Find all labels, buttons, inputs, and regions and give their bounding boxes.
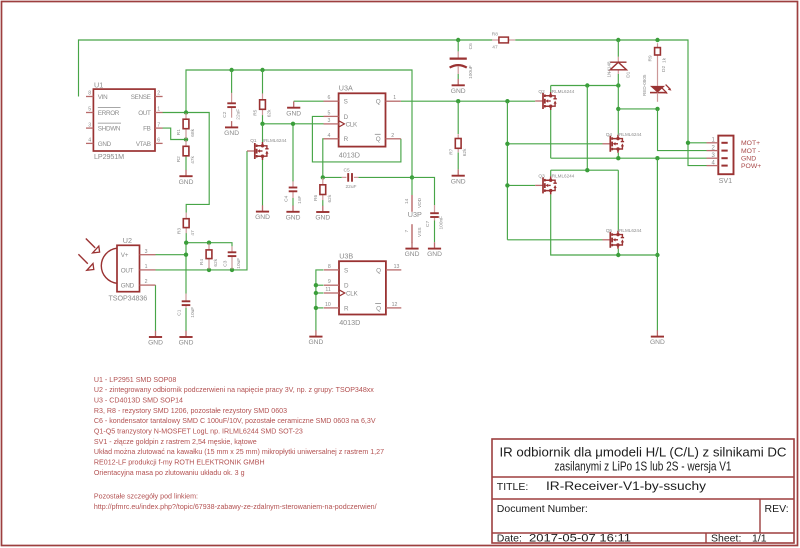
svg-text:R2: R2 — [176, 156, 182, 162]
wire R2 to ground — [185, 156, 187, 171]
svg-text:D: D — [344, 114, 349, 121]
svg-text:4013D: 4013D — [339, 318, 360, 327]
svg-text:TSOP34836: TSOP34836 — [109, 293, 148, 302]
IR arrow 2 into U2 — [78, 254, 93, 270]
wire VDD node to U3P pin 14 and C7 branch — [412, 177, 435, 242]
wire CLK net: R5/Q1 node to U3A CLK with C4 branch — [260, 115, 323, 182]
svg-text:62k: 62k — [213, 258, 219, 266]
resistor R2 47k — [176, 140, 196, 164]
svg-text:68k: 68k — [190, 128, 196, 136]
svg-text:U3B: U3B — [339, 252, 353, 261]
svg-text:GND: GND — [121, 283, 135, 290]
svg-text:GND: GND — [224, 130, 239, 137]
svg-text:GND: GND — [451, 88, 466, 95]
svg-text:CLK: CLK — [346, 290, 358, 297]
transistor Q5 IRLML6244 — [603, 228, 642, 249]
ground at U3A S pin — [286, 101, 301, 117]
svg-text:C4: C4 — [283, 195, 289, 201]
ground under R2 — [179, 170, 194, 186]
wire GND rail Q2/Q4 sources to SV1 pin 3 — [551, 110, 707, 160]
wire 3V node: R3 output row, TSOP V+ drop and C1 branch — [156, 233, 233, 331]
svg-text:R9: R9 — [648, 55, 654, 61]
svg-text:13: 13 — [394, 264, 400, 270]
svg-text:2: 2 — [145, 279, 148, 285]
svg-text:10uF: 10uF — [236, 258, 242, 269]
svg-text:4013D: 4013D — [339, 150, 360, 159]
svg-text:U2: U2 — [123, 236, 132, 245]
svg-text:U3P: U3P — [408, 210, 422, 219]
svg-text:IRLML6244: IRLML6244 — [618, 228, 642, 233]
flip-flop U3B 4013D — [324, 252, 401, 328]
wire U1 OUT net to R1 and rail to VDD corner — [163, 68, 413, 213]
svg-text:U1 - LP2951 SMD SOP08: U1 - LP2951 SMD SOP08 — [94, 376, 176, 384]
IR arrow 1 into U2 — [86, 239, 100, 253]
wire Q1 drain to CLK node — [262, 124, 264, 142]
svg-text:47: 47 — [492, 45, 498, 51]
svg-text:GND: GND — [148, 340, 163, 347]
svg-text:9: 9 — [328, 279, 331, 285]
svg-text:C6: C6 — [468, 43, 474, 49]
transistor Q3 IRLML6244 — [535, 174, 574, 195]
svg-text:100uF: 100uF — [468, 65, 474, 79]
capacitor C7 100nF — [425, 205, 444, 230]
ground under C6 — [451, 79, 466, 95]
svg-text:U3A: U3A — [339, 84, 353, 93]
svg-text:OUT: OUT — [121, 267, 134, 274]
svg-text:R6: R6 — [313, 195, 319, 201]
svg-text:7: 7 — [404, 230, 410, 233]
wire MOT- from LED node to SV1 pin 2 — [658, 109, 707, 151]
ground under Q1 source — [255, 205, 270, 221]
wire GND drop from pin3 node to bottom ground — [655, 158, 659, 330]
svg-text:7: 7 — [157, 122, 160, 128]
flip-flop U3A 4013D — [324, 84, 401, 160]
svg-text:1nF: 1nF — [297, 196, 303, 204]
svg-text:R5: R5 — [253, 109, 259, 115]
svg-text:3: 3 — [88, 122, 91, 128]
svg-text:GND: GND — [405, 251, 420, 258]
svg-text:http://pfmrc.eu/index.php?/top: http://pfmrc.eu/index.php?/topic/67938-z… — [94, 503, 377, 511]
svg-text:MOT+: MOT+ — [741, 140, 760, 147]
resistor R6 62k — [313, 178, 333, 203]
svg-text:U3 - CD4013D SMD SOP14: U3 - CD4013D SMD SOP14 — [94, 397, 183, 405]
svg-text:GND: GND — [427, 251, 442, 258]
svg-text:Document Number:: Document Number: — [497, 503, 588, 515]
ground under C4 — [286, 206, 301, 222]
svg-text:Q1: Q1 — [250, 138, 257, 144]
svg-text:Q: Q — [376, 99, 381, 106]
ground under C2 — [224, 121, 239, 137]
wire LED row joining D1 column — [618, 107, 659, 111]
resistor R7 62k — [448, 134, 468, 156]
transistor Q2 IRLML6244 — [535, 89, 574, 110]
svg-text:R: R — [344, 305, 349, 312]
capacitor C3 10uF — [222, 246, 241, 269]
notes text block — [94, 376, 384, 511]
ground under C1 — [179, 331, 194, 347]
svg-text:62k: 62k — [327, 194, 333, 202]
svg-text:12: 12 — [392, 302, 398, 308]
svg-text:Q5: Q5 — [606, 228, 613, 234]
svg-text:Q2: Q2 — [538, 89, 545, 95]
ground under U3B inputs — [308, 330, 323, 346]
svg-text:GND: GND — [255, 214, 270, 221]
svg-text:D2: D2 — [661, 66, 667, 72]
resistor R4 62k pullup — [199, 244, 219, 270]
ground under U2 GND pin — [148, 331, 163, 347]
wire Q1 source to ground — [262, 160, 264, 206]
svg-text:11: 11 — [325, 287, 330, 293]
svg-text:U2 - zintegrowany odbiornik po: U2 - zintegrowany odbiornik podczerwieni… — [94, 386, 374, 394]
svg-text:Q: Q — [376, 136, 381, 143]
svg-text:IRLML6244: IRLML6244 — [618, 132, 642, 137]
svg-text:CLK: CLK — [346, 121, 358, 128]
ground bottom right rail — [650, 330, 665, 346]
svg-text:MOT -: MOT - — [741, 148, 760, 155]
svg-text:6: 6 — [157, 138, 160, 144]
svg-text:U1: U1 — [94, 80, 103, 89]
wire MOT- vertical to Q3/Q5 drains — [551, 86, 619, 231]
svg-text:3: 3 — [328, 118, 331, 124]
svg-text:VDD: VDD — [417, 197, 423, 208]
svg-text:4: 4 — [88, 138, 91, 144]
svg-text:C2: C2 — [222, 111, 228, 117]
svg-text:22uF: 22uF — [346, 184, 357, 190]
wire U3A Q output to MOSFET gates — [401, 99, 535, 103]
svg-text:ERROR: ERROR — [98, 110, 120, 117]
svg-text:3: 3 — [145, 249, 148, 255]
svg-text:14: 14 — [404, 198, 410, 204]
svg-text:D: D — [344, 283, 349, 290]
svg-text:V+: V+ — [121, 252, 129, 259]
svg-text:2: 2 — [157, 91, 160, 97]
ground under R6 — [315, 206, 330, 222]
svg-text:R3, R8 - rezystory SMD 1206, p: R3, R8 - rezystory SMD 1206, pozostałe r… — [94, 407, 287, 415]
svg-text:Q1-Q5 tranzystory N-MOSFET Log: Q1-Q5 tranzystory N-MOSFET LogL np. IRLM… — [94, 427, 303, 435]
capacitor C2 22uF — [222, 93, 241, 120]
svg-text:C1: C1 — [176, 309, 182, 315]
svg-text:GND: GND — [286, 110, 301, 117]
svg-text:C3: C3 — [222, 260, 228, 266]
svg-text:R3: R3 — [176, 228, 182, 234]
svg-text:Układ można zlutować na kawałk: Układ można zlutować na kawałku (15 mm x… — [94, 448, 384, 456]
svg-text:1N4148: 1N4148 — [607, 61, 612, 78]
svg-text:D1: D1 — [626, 71, 632, 77]
svg-text:IRLML6244: IRLML6244 — [551, 89, 575, 94]
svg-text:1: 1 — [393, 95, 396, 101]
svg-text:GND: GND — [650, 339, 665, 346]
svg-text:IR odbiornik dla μmodeli H/L (: IR odbiornik dla μmodeli H/L (C/L) z sil… — [500, 444, 787, 459]
wire D1 column down to LED row and Q4 drain — [616, 40, 620, 135]
svg-text:SENSE: SENSE — [131, 94, 151, 101]
svg-text:Date:: Date: — [497, 532, 522, 544]
svg-text:5: 5 — [328, 110, 331, 116]
svg-text:1k: 1k — [662, 57, 668, 63]
resistor R1 68k — [176, 113, 196, 139]
wire U3P VSS to ground — [411, 242, 413, 245]
wire gate chain vertical with branches to Q4 Q3 Q5 gates — [505, 101, 602, 240]
IR receiver U2 TSOP34836 — [101, 236, 155, 302]
svg-text:6: 6 — [328, 95, 331, 101]
svg-text:10: 10 — [325, 302, 331, 308]
svg-text:GND: GND — [308, 339, 323, 346]
svg-text:Q4: Q4 — [606, 132, 613, 138]
ground under C7 — [427, 242, 442, 258]
svg-text:IR-Receiver-V1-by-ssuchy: IR-Receiver-V1-by-ssuchy — [546, 481, 706, 493]
svg-text:GND: GND — [98, 141, 112, 148]
svg-text:62k: 62k — [462, 148, 468, 156]
svg-text:4: 4 — [328, 133, 331, 139]
wire U3A Q-bar to D feedback loop — [312, 116, 401, 161]
transistor Q4 IRLML6244 — [603, 132, 642, 153]
svg-text:22uF: 22uF — [235, 109, 241, 120]
ground under R7 — [451, 169, 466, 185]
svg-text:SHDWN: SHDWN — [98, 126, 121, 133]
wire C2 branch from 3V rail — [231, 70, 233, 93]
svg-text:SV1: SV1 — [719, 176, 733, 185]
ground under U3P VSS — [405, 242, 420, 258]
wire U3B inputs tied to ground — [314, 270, 324, 331]
svg-text:1: 1 — [157, 107, 160, 113]
wire U2 GND pin to ground — [155, 285, 157, 331]
svg-text:RED-0805: RED-0805 — [642, 74, 647, 96]
svg-text:GND: GND — [741, 156, 756, 163]
svg-text:47: 47 — [190, 230, 196, 236]
wire R5 branch from 3V rail — [262, 70, 264, 94]
svg-text:Q: Q — [376, 267, 381, 274]
svg-text:IRLML6244: IRLML6244 — [263, 138, 287, 143]
svg-text:REV:: REV: — [765, 503, 789, 515]
capacitor C1 10uF — [176, 294, 195, 318]
svg-text:2: 2 — [391, 133, 394, 139]
svg-text:OUT: OUT — [138, 110, 151, 117]
wire source rail Q3/Q5 to GND drop — [551, 194, 658, 257]
svg-text:S: S — [344, 99, 348, 106]
svg-text:POW+: POW+ — [741, 163, 761, 170]
svg-text:VSS: VSS — [417, 227, 423, 237]
svg-text:VIN: VIN — [98, 94, 108, 101]
svg-text:R4: R4 — [199, 259, 205, 265]
svg-text:RE012-LF produkcji f-my ROTH E: RE012-LF produkcji f-my ROTH ELEKTRONIK … — [94, 458, 265, 466]
resistor R9 1k — [648, 43, 668, 63]
capacitor C5 22uF horizontal — [342, 167, 359, 190]
svg-text:GND: GND — [179, 179, 194, 186]
svg-text:VTAB: VTAB — [136, 141, 151, 148]
wire C5 row from R node to VDD node — [321, 175, 415, 179]
wire drain rail above Q2/Q4 to D1 — [551, 83, 621, 92]
wire U3A R pin down to C5 node — [322, 139, 325, 178]
voltage regulator U1 LP2951M — [86, 80, 163, 161]
transistor Q1 IRLML6244 — [247, 138, 287, 160]
resistor R3 47 — [176, 213, 196, 236]
LED D2 RED-0805 — [642, 60, 672, 102]
svg-text:R: R — [344, 136, 349, 143]
svg-text:FB: FB — [143, 126, 151, 133]
svg-text:8: 8 — [88, 91, 91, 97]
svg-text:C7: C7 — [425, 221, 431, 227]
svg-text:GND: GND — [179, 340, 194, 347]
svg-text:Q3: Q3 — [538, 174, 545, 180]
svg-text:C6 - kondensator tantalowy SMD: C6 - kondensator tantalowy SMD C 100uF/1… — [94, 417, 376, 425]
svg-text:5: 5 — [88, 107, 91, 113]
capacitor C6 100uF tantalum — [450, 40, 474, 79]
svg-text:LP2951M: LP2951M — [94, 152, 124, 161]
wire R6 to ground — [322, 200, 324, 206]
svg-text:62k: 62k — [267, 109, 273, 117]
svg-text:GND: GND — [451, 178, 466, 185]
svg-text:47k: 47k — [190, 155, 196, 163]
wire VBAT top rail from U1 VIN to right side and SV1 POW+ — [79, 38, 707, 166]
svg-text:R1: R1 — [176, 129, 182, 135]
svg-text:1/1: 1/1 — [752, 532, 767, 544]
svg-text:Pozostałe szczegóły pod linkie: Pozostałe szczegóły pod linkiem: — [94, 493, 198, 501]
wire TSOP OUT net to Q1 gate — [156, 151, 248, 272]
diode D1 1N4148 — [607, 57, 632, 78]
wire U1 FB feedback to R1/R2 divider node — [163, 128, 189, 142]
connector SV1 pin header — [707, 136, 762, 185]
wire U3A S pin to ground — [294, 100, 324, 102]
svg-text:GND: GND — [315, 215, 330, 222]
svg-text:S: S — [344, 267, 348, 274]
wire R7 branch from Q net — [457, 101, 459, 134]
svg-text:IRLML6244: IRLML6244 — [551, 174, 575, 179]
svg-text:1: 1 — [145, 264, 148, 270]
resistor R5 62k — [253, 93, 273, 117]
svg-text:2017-05-07 16:11: 2017-05-07 16:11 — [529, 532, 631, 544]
power symbol U3P VDD/VSS pins — [404, 195, 423, 243]
svg-text:10uF: 10uF — [190, 307, 196, 318]
svg-text:TITLE:: TITLE: — [497, 481, 529, 493]
title block — [492, 439, 794, 544]
resistor R8 47 series — [492, 31, 515, 50]
svg-text:R7: R7 — [448, 148, 454, 154]
svg-text:C5: C5 — [344, 167, 350, 173]
svg-text:zasilanymi z LiPo 1S lub 2S -: zasilanymi z LiPo 1S lub 2S - wersja V1 — [555, 458, 732, 473]
svg-text:Sheet:: Sheet: — [711, 532, 741, 544]
svg-text:R8: R8 — [492, 31, 498, 37]
svg-text:GND: GND — [286, 214, 301, 221]
svg-text:Q: Q — [376, 305, 381, 312]
svg-text:Orientacyjna masa po zlutowani: Orientacyjna masa po zlutowaniu układu o… — [94, 469, 245, 477]
svg-text:8: 8 — [328, 264, 331, 270]
capacitor C4 1nF — [283, 181, 302, 204]
svg-text:SV1 - złącze goldpin z rastrem: SV1 - złącze goldpin z rastrem 2,54 męsk… — [94, 438, 257, 446]
svg-text:100nF: 100nF — [438, 216, 444, 230]
